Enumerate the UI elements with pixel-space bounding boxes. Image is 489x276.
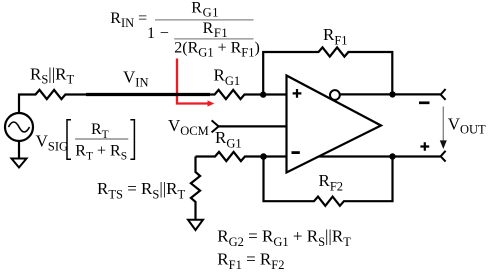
svg-text:1 −: 1 − [147, 25, 170, 42]
